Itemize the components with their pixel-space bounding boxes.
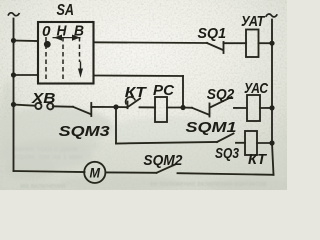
SA contact dot on line 0 <box>44 41 51 48</box>
contact SQM3 fixed tick <box>90 103 92 116</box>
AC tilde right <box>266 14 277 17</box>
contact SQ3 blade (open) <box>217 134 234 143</box>
node A <box>113 104 118 109</box>
faint print bleed-through, bottom-left <box>14 144 82 161</box>
svg-text:УАС: УАС <box>244 80 269 97</box>
wire: motor to SQM2 <box>106 171 157 173</box>
contact KT delay arc <box>126 97 135 104</box>
svg-text:РС: РС <box>153 82 175 99</box>
contact SQM3 blade (closed) <box>73 107 91 114</box>
wire: right rail <box>272 20 274 175</box>
wire: node A to KT contact <box>116 106 127 108</box>
node B <box>180 105 185 110</box>
wire: row3 to SQ3 <box>116 142 217 144</box>
svg-text:КТ: КТ <box>248 151 268 168</box>
svg-text:ма включения: ма включения <box>20 183 66 190</box>
svg-text:Н: Н <box>57 23 68 40</box>
wire: XB to SQM3 <box>53 105 73 108</box>
node: rail row1 <box>11 38 16 43</box>
coil PC rectangle <box>155 97 167 122</box>
faint print bleed-through, bottom strip <box>20 181 267 190</box>
contact KT blade <box>128 99 141 108</box>
contact SQM1 fixed tick <box>209 104 211 117</box>
svg-text:SQM3: SQM3 <box>59 123 111 140</box>
wire: SQ2 to YAC coil <box>234 107 247 109</box>
wire: YAC to right rail <box>260 107 272 109</box>
svg-text:SQ2: SQ2 <box>207 86 235 103</box>
svg-text:SQM2: SQM2 <box>143 152 183 169</box>
coil YAT rectangle <box>246 30 259 58</box>
wire: SQ1 to YAT coil <box>224 42 247 44</box>
wire: SQM2 to right bottom corner <box>178 173 274 175</box>
wire: row2 SA box right, to corner <box>94 75 184 78</box>
contact KT tick <box>127 102 129 109</box>
node: right rail KT <box>269 140 274 145</box>
svg-text:SQ1: SQ1 <box>198 25 227 42</box>
wire: left rail <box>13 19 15 172</box>
coil KT rectangle <box>245 131 257 155</box>
contact SQM2 blade (open) <box>157 165 176 173</box>
node: right rail YAT <box>269 41 274 46</box>
SA selector double arrow <box>53 37 81 39</box>
svg-text:В: В <box>74 23 84 40</box>
SA arrowhead right <box>72 35 80 41</box>
SA position dashed line B <box>79 37 81 62</box>
wire: SQ3 to KT coil <box>236 142 245 144</box>
wire: PC to node B <box>167 107 183 109</box>
motor M circle <box>84 162 105 183</box>
svg-text:УАТ: УАТ <box>241 13 266 30</box>
contact SQ2 blade (open) <box>210 97 232 108</box>
switch SA box <box>38 22 94 84</box>
wire: KT contact to PC coil <box>140 106 156 108</box>
wire: corner down to node B <box>182 76 184 108</box>
wire: row1 SA box to SQ1 <box>94 41 208 44</box>
svg-text:SQM1: SQM1 <box>186 119 237 136</box>
wire: mid row rail to XB <box>14 105 36 106</box>
svg-text:КТ: КТ <box>125 84 148 101</box>
contact SQ1 blade (closed) <box>207 43 223 50</box>
wire: node A down <box>115 107 117 144</box>
AC tilde left <box>8 13 19 16</box>
wire: node B to SQM1 <box>183 107 192 109</box>
paper mottling <box>0 80 295 192</box>
coil YAC rectangle <box>247 95 260 121</box>
contact SQM1 blade (closed) <box>192 108 209 115</box>
svg-text:SQ3: SQ3 <box>215 145 240 162</box>
contact SQ1 fixed tick <box>223 42 225 53</box>
connector XB circles <box>35 103 41 109</box>
svg-text:0: 0 <box>42 23 51 40</box>
SA down arrow on line B <box>78 62 83 78</box>
node: rail row2 <box>11 72 16 77</box>
wire: bottom, rail to motor <box>14 171 85 172</box>
wire: SQM3 to node A <box>91 106 116 108</box>
wire: row1 left rail to SA box <box>14 40 39 43</box>
node: right rail YAC <box>269 105 274 110</box>
svg-text:ХВ: ХВ <box>31 90 56 107</box>
wire: row2 left rail to SA box <box>14 74 39 76</box>
wire: KT coil to right rail <box>257 142 272 144</box>
SA position dashed line H <box>62 37 64 80</box>
SA arrowhead left <box>54 35 62 41</box>
node: rail mid row <box>11 102 16 107</box>
svg-text:SA: SA <box>57 2 75 19</box>
paper background <box>0 0 287 190</box>
SA position dashed line 0 <box>45 37 47 80</box>
wire: YAT to right rail <box>259 42 273 44</box>
svg-text:М: М <box>90 166 101 181</box>
